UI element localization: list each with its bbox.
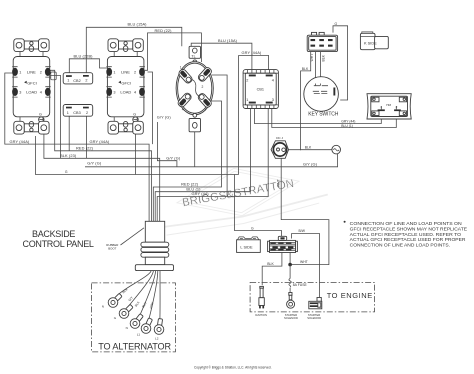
svg-text:3: 3 [272,98,274,102]
svg-text:BLU (15A): BLU (15A) [128,22,148,27]
circuit breaker CB2 [63,73,92,84]
ring terminal G [119,304,133,318]
svg-text:G/Y (G): G/Y (G) [303,161,318,166]
circuit breaker CB3 [63,105,92,117]
ring terminal L2 [154,319,164,335]
GFCI receptacle 2 [106,39,145,134]
wire RED 22 bus [48,70,152,221]
wire key switch BLK [320,52,322,86]
ring terminal N [108,293,122,307]
svg-text:2: 2 [246,78,248,82]
svg-text:WHT: WHT [276,179,280,187]
slot 1 [178,68,194,84]
wire BLU 15A top bus [86,27,182,75]
wire G/Y G bus [85,154,338,167]
slot 2 [197,66,213,82]
svg-text:G/Y (G): G/Y (G) [87,160,102,165]
svg-text:L SIDE: L SIDE [240,245,253,250]
note text [344,221,346,223]
svg-text:4: 4 [272,78,274,82]
svg-text:N: N [102,305,104,309]
DC jack [271,136,288,159]
starter solenoid flag terminal [309,298,322,309]
svg-text:GRY (44): GRY (44) [192,191,210,196]
svg-text:GRY (44A): GRY (44A) [10,139,30,144]
svg-text:8A FUSE: 8A FUSE [293,283,308,287]
svg-text:TO ENGINE: TO ENGINE [327,291,373,300]
connector K SIDE [360,32,388,50]
svg-text:3: 3 [204,108,206,112]
wire fuse 8A [289,265,291,293]
svg-text:WHT: WHT [300,260,308,264]
svg-text:HM: HM [386,103,391,107]
circuit breaker CB1 [243,70,278,109]
lamp [332,145,341,154]
ignition spade terminal [259,286,264,308]
wire CB3 pin2 [86,107,88,158]
harness stack connector [268,236,298,252]
wire GRY 44 lower bus [157,103,268,221]
svg-text:K SIDE: K SIDE [364,41,377,46]
wire RED 22 top bus [145,33,202,70]
connector L SIDE [237,237,261,253]
wire G/Y GFCI2 [157,122,177,167]
svg-text:1: 1 [380,105,382,109]
svg-text:CONNECTION OF LINE AND LOAD PO: CONNECTION OF LINE AND LOAD POINTS ON [350,221,463,227]
GFCI receptacle 1 [12,39,51,134]
svg-text:1: 1 [246,98,248,102]
svg-text:GRY (44A): GRY (44A) [90,139,110,144]
wire GFCI2 G down [135,122,137,175]
wire BLK to lamp [289,149,333,151]
slot 4 [177,92,193,108]
svg-text:L2: L2 [155,336,159,340]
wire G to engine connector [235,175,282,238]
watermark [147,153,330,239]
svg-text:CONNECTION OF LINE AND LOAD PO: CONNECTION OF LINE AND LOAD POINTS. [350,243,450,249]
wire GRY 44A bus [5,73,149,221]
svg-text:2: 2 [396,105,398,109]
rubber boot [135,221,173,270]
svg-text:L1: L1 [137,333,141,337]
svg-text:CB2: CB2 [73,79,80,83]
wire RED 22 lower bus [153,101,221,221]
svg-text:BOOT: BOOT [108,247,116,251]
svg-text:SOLENOID: SOLENOID [307,316,321,320]
wire CB3 pin1 [68,107,70,151]
svg-text:GRY (44A): GRY (44A) [242,50,262,55]
svg-text:1: 1 [180,65,182,69]
wire GRY 44A to CB1 pin4 [239,56,269,175]
svg-text:BLU (15A): BLU (15A) [218,38,238,43]
svg-text:BLU (1): BLU (1) [341,124,353,128]
svg-text:CB1: CB1 [257,87,264,91]
alternator dashed box [92,283,176,352]
hour meter HM [367,94,411,119]
key switch [304,77,339,118]
terminal block GFCI1 T2 [51,72,56,80]
wire GFCI2 T2 right [148,72,153,144]
svg-text:G/Y (G): G/Y (G) [166,156,181,161]
svg-text:KEY SWITCH: KEY SWITCH [308,112,339,118]
svg-text:BLK: BLK [267,262,274,266]
wire BLU 1 lower bus [155,103,250,221]
ring terminal N2 [130,314,143,329]
svg-text:G: G [65,170,68,174]
svg-text:BLK: BLK [305,145,312,149]
svg-text:BLK: BLK [322,54,326,61]
svg-text:BLU (22B): BLU (22B) [74,53,94,58]
svg-text:1: 1 [67,111,69,115]
starter solenoid ring terminal [287,293,295,309]
svg-text:RED (22): RED (22) [76,146,94,151]
svg-text:2: 2 [86,111,88,115]
svg-text:G: G [251,226,254,230]
twist-lock receptacle TL [176,46,213,132]
svg-text:BLK (23): BLK (23) [60,153,77,158]
wire key switch WHT [315,52,317,86]
wire BLK to ignition [262,253,282,286]
wire stack to junction [289,253,291,265]
svg-text:BLK: BLK [302,67,309,71]
wire BLU 1 to hourmeter [272,103,397,127]
wire B/W [292,234,320,299]
svg-text:Copyright © Briggs & Stratton,: Copyright © Briggs & Stratton, LLC. All … [194,365,272,369]
wire TL ground [194,132,196,167]
key switch connector [307,32,337,51]
svg-text:2: 2 [202,85,204,89]
svg-text:GFCI RECEPTACLE SHOWN MAY NOT: GFCI RECEPTACLE SHOWN MAY NOT REPLICATE [350,226,467,232]
svg-text:2: 2 [85,78,87,82]
svg-text:ACTUAL GFCI RECEPTACLE USED FO: ACTUAL GFCI RECEPTACLE USED FOR PROPER [350,237,466,243]
wire GRY 44 to hourmeter [254,103,381,123]
svg-text:SOLENOID: SOLENOID [284,316,298,320]
svg-text:CB3: CB3 [73,111,80,115]
svg-text:ACTUAL GFCI RECEPTACLE USED.: ACTUAL GFCI RECEPTACLE USED. REFER TO [350,232,462,238]
engine dashed box [250,283,374,312]
svg-text:GRY (44): GRY (44) [341,120,355,124]
svg-text:G: G [335,22,338,26]
svg-text:TL: TL [191,54,195,58]
slot 3 [197,92,213,108]
wire TL T2 down [212,75,228,197]
svg-text:1: 1 [67,79,69,83]
boot fan wires [118,271,152,296]
svg-text:B/W: B/W [299,229,306,233]
wire CB2 pin1 to GFCI2 line [69,59,109,76]
wire G bus [36,136,239,175]
ring terminal L1 [141,318,152,333]
svg-text:BACKSIDE: BACKSIDE [32,229,75,239]
node junction dot [288,263,292,267]
svg-text:IGNITION: IGNITION [255,313,267,317]
wire key switch BLK left [301,52,311,151]
wire key switch G [333,26,348,100]
svg-text:N: N [126,326,128,330]
svg-text:DC J: DC J [276,136,283,140]
wire BLU 15A to CB1 [191,43,252,74]
svg-text:4: 4 [182,108,184,112]
svg-text:G/Y (G): G/Y (G) [157,115,172,120]
svg-text:CONTROL PANEL: CONTROL PANEL [23,239,94,249]
wire WHT from DC jack [281,157,329,264]
wire BLK 23 bus [44,122,160,222]
svg-text:RED (22): RED (22) [155,28,173,33]
svg-text:TO ALTERNATOR: TO ALTERNATOR [98,341,171,351]
